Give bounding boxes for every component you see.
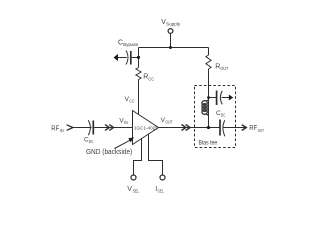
svg-text:Bias tee: Bias tee bbox=[199, 140, 218, 147]
svg-text:CC: CC bbox=[148, 76, 154, 81]
svg-text:OUT: OUT bbox=[220, 66, 228, 71]
svg-text:CC: CC bbox=[129, 98, 134, 103]
svg-text:RF: RF bbox=[51, 125, 59, 132]
svg-text:SEL: SEL bbox=[158, 189, 165, 194]
svg-text:IN: IN bbox=[60, 128, 64, 134]
svg-text:RF: RF bbox=[249, 125, 257, 132]
svg-text:OUT: OUT bbox=[258, 128, 264, 134]
svg-text:Bypass: Bypass bbox=[123, 42, 139, 48]
svg-text:IN: IN bbox=[124, 120, 128, 125]
svg-text:SEL: SEL bbox=[133, 189, 140, 194]
svg-text:1GC1-4025: 1GC1-4025 bbox=[134, 126, 158, 131]
svg-text:Supply: Supply bbox=[166, 22, 181, 28]
svg-text:DC: DC bbox=[89, 139, 94, 144]
svg-text:V: V bbox=[127, 186, 132, 193]
svg-text:OUT: OUT bbox=[165, 120, 172, 125]
svg-text:DC: DC bbox=[221, 113, 226, 118]
svg-text:GND (backside): GND (backside) bbox=[86, 149, 132, 156]
